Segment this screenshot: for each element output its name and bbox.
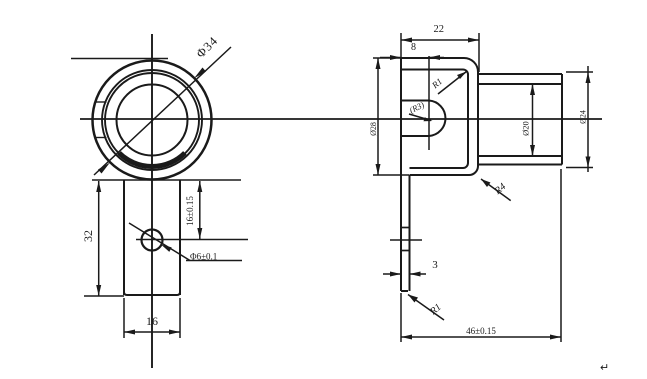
dim phi28 line [377, 58, 379, 175]
svg-text:32: 32 [81, 230, 95, 242]
dim phi24 line [587, 66, 589, 172]
dim 8 right segment with arrow [429, 57, 444, 59]
dim 16 right arrow [169, 330, 180, 335]
dim phi28 top arrow [376, 58, 381, 69]
dim 32 line [98, 181, 100, 296]
leg hole upper line [401, 227, 410, 229]
dim 16pm015 top arrow [197, 181, 202, 192]
dim 46 line [401, 336, 561, 338]
svg-text:Ø28: Ø28 [369, 122, 378, 136]
svg-text:Φ6±0.1: Φ6±0.1 [190, 252, 217, 262]
dim 16pm015 line [199, 181, 201, 239]
dim 22 line [401, 39, 479, 41]
aux horizontal line top-left [71, 58, 168, 60]
inner circle phi20 [117, 85, 188, 156]
dim 16 right extension [179, 298, 181, 338]
leg hole centerline [390, 239, 422, 241]
dim phi24 bottom extension [566, 167, 593, 169]
horizontal centerline both views [80, 118, 602, 120]
ring circle r47 [105, 73, 199, 167]
dim 3 right segment with arrow [410, 273, 427, 275]
R3 leader [409, 114, 431, 121]
dim phi28 bottom arrow [376, 164, 381, 175]
leg bottom edge [401, 290, 408, 292]
dim 32 top arrow [96, 181, 101, 192]
svg-text:Φ34: Φ34 [193, 33, 220, 60]
svg-text:R1: R1 [429, 76, 444, 91]
dim 46 left arrow [401, 335, 412, 340]
stem bottom edge (left view) [124, 292, 180, 295]
cylinder right edge [561, 74, 563, 165]
block outer profile [401, 58, 478, 175]
slot extension line [428, 56, 430, 150]
block left edge and leg left edge [400, 58, 402, 291]
dim 16 line [124, 331, 180, 333]
slot top line [401, 100, 429, 102]
dim 32 bottom extension [84, 295, 124, 297]
dim phi24 bottom arrow [586, 157, 591, 168]
svg-text:↵: ↵ [600, 362, 609, 374]
R4 leader [481, 179, 511, 201]
svg-text:3: 3 [432, 259, 438, 271]
svg-text:46±0.15: 46±0.15 [466, 326, 496, 336]
dim 22 left extension [400, 33, 402, 58]
flat tick upper-left [95, 101, 107, 103]
hole horizontal centerline [136, 239, 248, 241]
dim 3 left segment with arrow [383, 273, 401, 275]
svg-text:Ø24: Ø24 [579, 110, 588, 124]
dim 46 right arrow [550, 335, 561, 340]
phi34 arrow lower-left [98, 163, 110, 174]
dim phi20 bottom arrow [530, 145, 535, 156]
R1 top leader [438, 72, 467, 95]
ring circle r50 [102, 70, 202, 170]
dim 46 right extension [560, 169, 562, 342]
dim 16 left extension [123, 298, 125, 338]
dim phi28 top extension [373, 57, 401, 59]
cylinder inner bottom [478, 155, 562, 157]
dim 8 left segment with arrow [380, 57, 401, 59]
flat tick lower-left [95, 137, 107, 139]
hole phi6 [142, 230, 163, 251]
cylinder outer top [478, 73, 562, 75]
leg hole lower line [401, 250, 410, 252]
dim 22 right arrow [468, 38, 479, 43]
dim phi20 top arrow [530, 84, 535, 95]
phi6 leader line [129, 223, 190, 261]
svg-text:16: 16 [146, 314, 158, 328]
phi34 diagonal dimension line [94, 47, 231, 175]
slot bottom line [401, 135, 429, 137]
svg-text:Ø20: Ø20 [521, 121, 531, 136]
svg-text:16±0.15: 16±0.15 [185, 196, 195, 226]
dim 22 right extension [478, 33, 480, 72]
svg-text:R4: R4 [492, 181, 508, 197]
svg-text:(R3): (R3) [408, 99, 426, 115]
R1 bottom leader [408, 295, 444, 321]
stem right edge (left view) [179, 180, 181, 295]
phi6 leader arrow [161, 245, 172, 252]
dim phi20 line [532, 84, 534, 156]
cylinder inner top [478, 83, 562, 85]
dim 16 left arrow [124, 330, 135, 335]
leg right edge [409, 175, 411, 291]
svg-text:22: 22 [434, 24, 445, 35]
stem left edge (left view) [123, 180, 125, 295]
phi34 arrow upper-right [194, 68, 206, 79]
bold bottom arc of ring [119, 153, 185, 167]
outer circle phi34 [93, 61, 212, 180]
dim 16pm015 bottom arrow [197, 228, 202, 239]
dim 46 left extension [400, 293, 402, 342]
dim phi24 top extension [566, 71, 593, 73]
svg-text:8: 8 [411, 42, 416, 53]
vertical centerline left view [151, 34, 153, 368]
cylinder outer bottom [478, 164, 562, 166]
stem top extension line [92, 179, 241, 181]
svg-text:R1: R1 [427, 302, 443, 318]
slot semicircular arc R3 [429, 101, 445, 137]
dim phi24 top arrow [586, 72, 591, 83]
dim phi28 bottom extension [373, 174, 409, 176]
dim 22 left arrow [401, 38, 412, 43]
phi6 underline [186, 260, 242, 262]
block inner profile [401, 70, 468, 169]
dim 32 bottom arrow [96, 285, 101, 296]
